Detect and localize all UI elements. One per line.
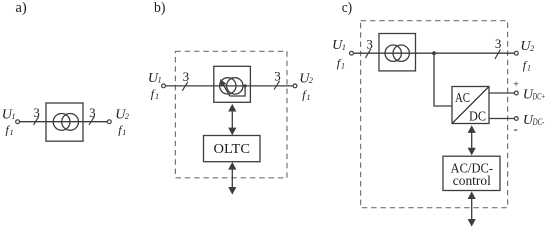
3-phase marker right (b): [274, 69, 281, 90]
svg-text:3: 3: [495, 36, 502, 51]
svg-text:AC: AC: [455, 91, 470, 106]
svg-text:3: 3: [183, 69, 190, 84]
svg-text:DC: DC: [469, 109, 486, 124]
transformer T (a): [46, 103, 83, 141]
svg-text:UDC-: UDC-: [523, 113, 545, 128]
svg-text:3: 3: [89, 105, 96, 120]
3-phase marker left (c): [365, 36, 373, 58]
svg-text:U1: U1: [148, 71, 162, 86]
svg-text:+: +: [513, 79, 519, 90]
svg-text:U1: U1: [2, 108, 16, 123]
wire junction to converter (c): [434, 53, 452, 106]
OLTC box (b): [204, 136, 261, 162]
terminal UDC- (c): [514, 117, 518, 121]
terminal UDC+ (c): [514, 91, 518, 95]
terminal U1 (c): [350, 51, 354, 55]
tap wire (b): [230, 86, 245, 96]
svg-text:a): a): [15, 0, 26, 16]
wire left (a): [20, 121, 108, 123]
terminal U2 (a): [107, 120, 111, 124]
3-phase marker right (a): [89, 105, 96, 125]
svg-text:f1: f1: [302, 87, 310, 101]
OLTC transformer (b): [214, 66, 251, 102]
svg-text:c): c): [342, 0, 353, 16]
svg-text:3: 3: [274, 69, 281, 84]
tap changer arrow (b): [220, 79, 230, 96]
svg-text:U2: U2: [115, 108, 129, 123]
svg-text:U2: U2: [520, 39, 534, 54]
dashed enclosure (c): [361, 21, 508, 208]
wire left (b): [166, 85, 294, 87]
terminal U2 (b): [293, 84, 297, 88]
svg-text:OLTC: OLTC: [214, 142, 251, 157]
svg-text:f1: f1: [6, 122, 14, 136]
external control arrow (b): [228, 162, 236, 195]
AC/DC converter (c): [452, 87, 489, 125]
external control arrow (c): [468, 191, 476, 226]
svg-text:f1: f1: [151, 87, 159, 101]
transformer T (c): [379, 34, 416, 71]
junction dot (b): [244, 84, 247, 87]
svg-text:control: control: [453, 174, 491, 189]
control link arrow transformer-OLTC (b): [228, 104, 236, 135]
svg-text:f1: f1: [118, 122, 126, 136]
wire DC- output (c): [489, 118, 514, 120]
svg-text:b): b): [154, 0, 165, 16]
terminal U1 (b): [162, 84, 166, 88]
svg-text:UDC+: UDC+: [523, 87, 545, 102]
wire DC+ output (c): [489, 92, 514, 94]
3-phase marker left (a): [33, 105, 40, 125]
junction node (c): [432, 51, 436, 55]
wire left (c): [354, 52, 515, 54]
svg-text:3: 3: [33, 105, 40, 120]
control link arrow converter-control (c): [468, 125, 476, 155]
AC/DC-control box (c): [443, 156, 500, 190]
dashed enclosure (b): [175, 51, 287, 178]
svg-text:f1: f1: [337, 56, 345, 70]
svg-text:3: 3: [366, 36, 373, 51]
svg-text:U2: U2: [299, 71, 313, 86]
3-phase marker right (c): [495, 36, 502, 59]
3-phase marker left (b): [182, 69, 189, 91]
svg-text:U1: U1: [332, 38, 346, 53]
terminal U1 (a): [16, 120, 20, 124]
svg-text:f1: f1: [523, 58, 531, 72]
terminal U2 (c): [514, 51, 518, 55]
svg-text:-: -: [514, 121, 518, 136]
